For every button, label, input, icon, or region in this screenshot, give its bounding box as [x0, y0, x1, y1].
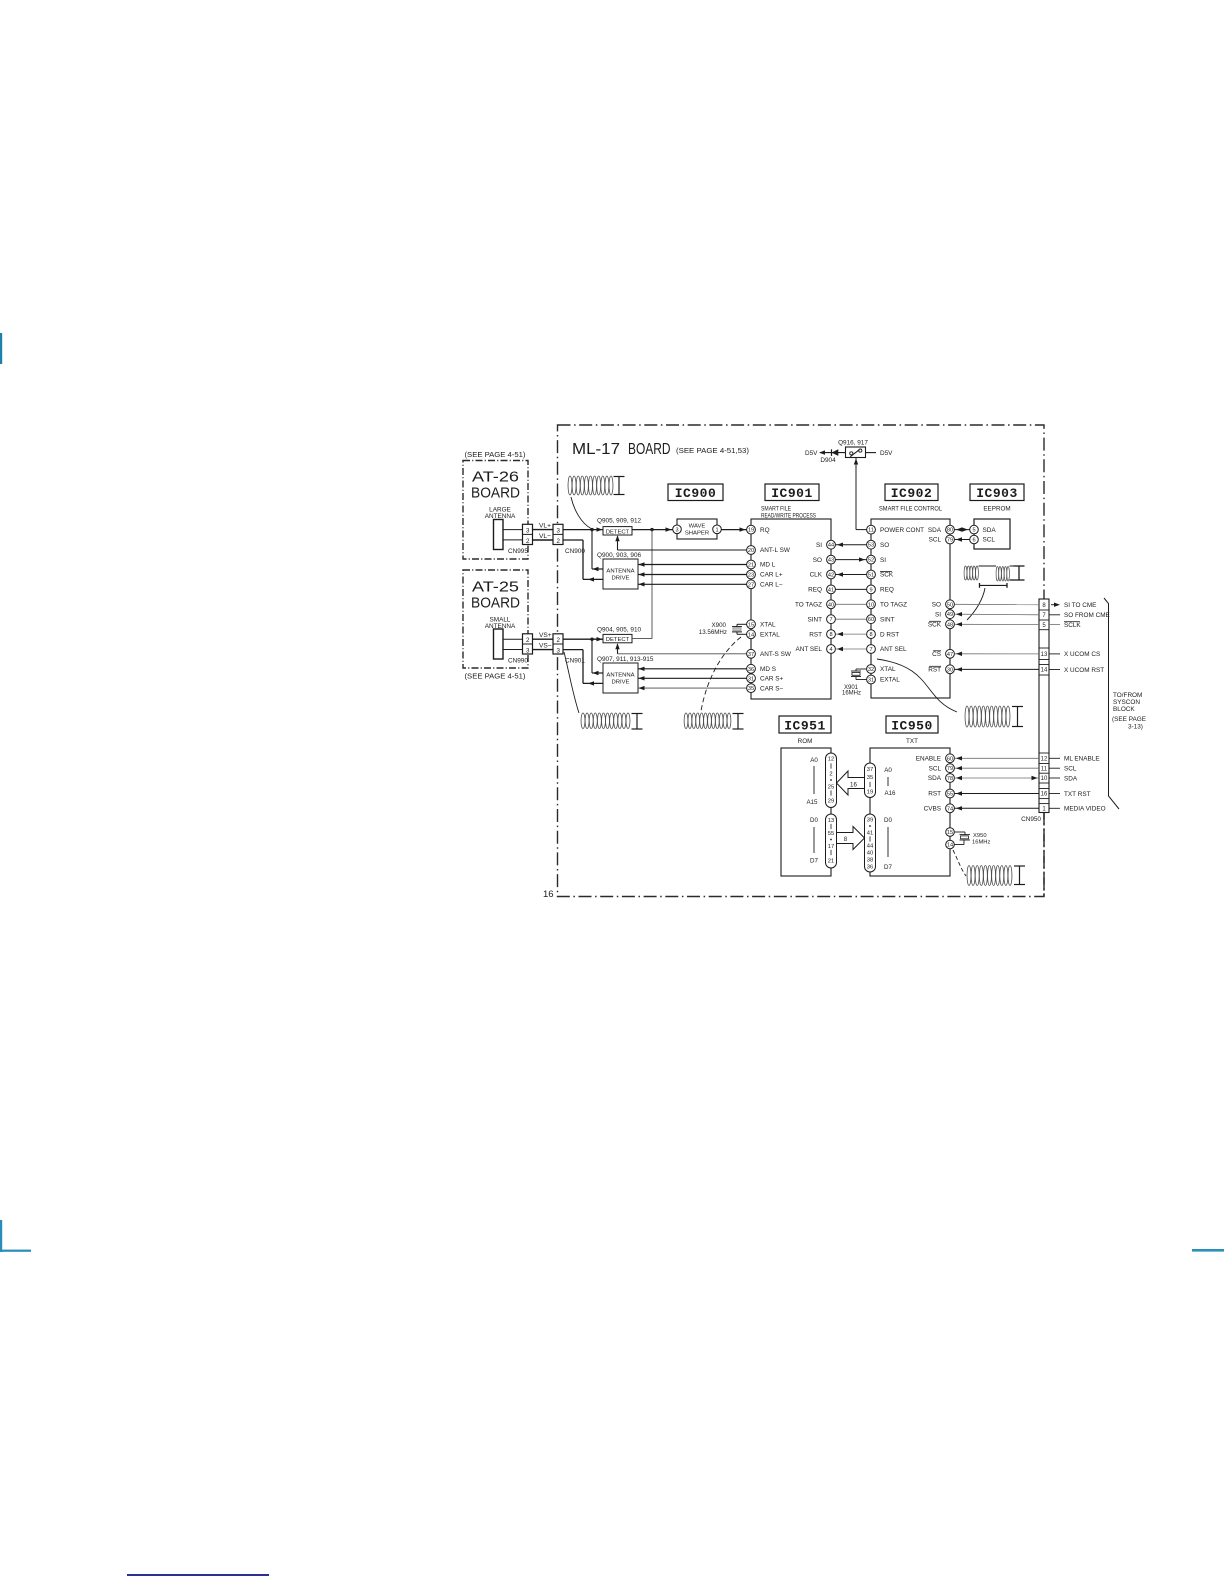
svg-text:X UCOM CS: X UCOM CS: [1064, 651, 1100, 658]
svg-text:D0: D0: [884, 817, 892, 824]
IC902 pin 31 EXTAL: [867, 675, 876, 684]
svg-text:16MHz: 16MHz: [842, 691, 861, 697]
wire antenna drive2 out1: [591, 639, 593, 673]
svg-text:CAR S−: CAR S−: [760, 685, 784, 692]
svg-text:CN990: CN990: [508, 658, 528, 665]
wire VL+ CN995 to CN900: [533, 529, 554, 531]
IC901 pin 14 EXTAL: [747, 630, 756, 639]
svg-text:32: 32: [868, 667, 874, 673]
svg-text:35: 35: [748, 686, 754, 692]
IC902 pin 47 CS: [946, 649, 955, 658]
IC900 label box: [668, 484, 723, 501]
svg-text:37: 37: [748, 652, 754, 658]
crystal X900 13.56MHz: [737, 623, 747, 625]
svg-text:ENABLE: ENABLE: [916, 756, 941, 763]
svg-text:16: 16: [1041, 792, 1048, 798]
svg-text:SCL: SCL: [929, 537, 942, 544]
svg-text:3-13): 3-13): [1128, 724, 1143, 731]
IC901 pin 8 RST: [827, 630, 836, 639]
svg-text:8: 8: [829, 632, 832, 638]
wire TO TAGZ 40 to 10: [836, 603, 867, 605]
svg-text:48: 48: [947, 622, 953, 628]
svg-text:3: 3: [675, 527, 678, 533]
svg-text:44: 44: [867, 844, 874, 850]
svg-text:7: 7: [869, 647, 872, 653]
svg-text:XTAL: XTAL: [760, 622, 776, 629]
svg-text:CAR L−: CAR L−: [760, 582, 783, 589]
svg-text:SHAPER: SHAPER: [685, 530, 709, 536]
svg-text:SINT: SINT: [880, 616, 895, 623]
svg-text:TXT: TXT: [906, 738, 918, 745]
svg-text:9: 9: [869, 587, 872, 593]
IC950 pin 79 SCL: [946, 764, 955, 773]
IC950 pin 78 SDA: [946, 774, 955, 783]
IC901 pin 44 SI: [827, 540, 836, 549]
wire wave shaper to IC901 RQ: [721, 529, 746, 531]
IC951 address pins 12-29: [826, 753, 837, 808]
IC901 pin 40 TO TAGZ: [827, 600, 836, 609]
antenna drive block 2: [603, 663, 638, 693]
svg-text:12: 12: [828, 757, 834, 763]
svg-text:36: 36: [867, 865, 873, 871]
AT-26 board dash-dot border: [463, 461, 528, 560]
net SO FROM CME: [1049, 614, 1060, 616]
svg-text:MD S: MD S: [760, 666, 776, 673]
IC950 data pins 39-36: [865, 814, 876, 872]
large antenna element: [494, 520, 504, 550]
wire antenna drive1 out1: [591, 530, 593, 569]
wire ANT-L SW to DETECT1 bottom: [618, 549, 747, 551]
measure bracket under coil: [979, 583, 981, 588]
wire MD S into antenna drive2: [638, 668, 747, 670]
board border below connector: [1043, 813, 1045, 897]
svg-text:19: 19: [867, 790, 873, 796]
svg-text:X900: X900: [712, 622, 727, 629]
net D5V right: [866, 452, 877, 454]
wire SI 49 to pin 7 SO FROM CME: [955, 613, 1040, 616]
net SI TO CME: [1054, 603, 1060, 607]
svg-text:VL−: VL−: [539, 533, 551, 540]
svg-text:SDA: SDA: [928, 527, 942, 534]
wire SCK 51 to CLK 42: [836, 574, 867, 576]
svg-text:29: 29: [828, 799, 834, 805]
svg-text:30: 30: [947, 667, 953, 673]
svg-text:READ/WRITE PROCESS: READ/WRITE PROCESS: [761, 512, 816, 519]
net TXT RST: [1049, 793, 1060, 795]
svg-text:39: 39: [867, 818, 873, 824]
wire ANT SEL 7 to 4: [836, 648, 867, 650]
wire CN901 pin2 to DETECT2: [563, 638, 603, 640]
svg-text:ANTENNA: ANTENNA: [606, 569, 634, 575]
print registration mark navy bottom: [127, 1574, 269, 1576]
dashed leader pin14 to coil: [953, 850, 966, 876]
node wire down to DETECT2 output: [651, 530, 653, 639]
svg-text:D0: D0: [810, 817, 818, 824]
ferrite coil bottom-right with capacitor: [967, 866, 971, 886]
svg-text:WAVE: WAVE: [689, 524, 706, 530]
IC901 pin 21 MD L: [747, 560, 756, 569]
IC902 pin 48 SCK: [946, 620, 955, 629]
IC950 pin 60 ENABLE: [946, 754, 955, 763]
wire power cont to switch: [855, 458, 857, 530]
net X UCOM RST: [1049, 669, 1060, 671]
svg-text:CLK: CLK: [810, 572, 823, 579]
svg-text:41: 41: [867, 831, 873, 837]
svg-text:IC951: IC951: [784, 719, 826, 734]
ML-17 board dash-dot border: [558, 425, 1045, 897]
wire SO 43 to SI 52: [836, 559, 867, 561]
svg-text:13: 13: [828, 818, 834, 824]
ferrite coil right of connector top with capacitor: [965, 706, 969, 727]
wave shaper pin 3: [673, 525, 682, 534]
svg-text:37: 37: [867, 767, 873, 773]
svg-text:60: 60: [868, 617, 874, 623]
svg-text:Q900, 903, 906: Q900, 903, 906: [597, 552, 642, 559]
wire CAR L- into antenna drive1: [638, 583, 747, 585]
svg-text:40: 40: [867, 851, 873, 857]
IC903 pin 6 SCL: [970, 535, 979, 544]
svg-text:35: 35: [867, 775, 873, 781]
print registration mark cyan right: [1192, 1249, 1224, 1252]
syscon group bracket: [1104, 598, 1119, 809]
svg-text:10: 10: [868, 602, 874, 608]
svg-text:A0: A0: [810, 757, 818, 764]
IC901 pin 4 ANT SEL: [827, 645, 836, 654]
wire VS+ CN990 to CN901: [533, 638, 554, 640]
svg-text:IC900: IC900: [675, 486, 717, 501]
svg-text:BLOCK: BLOCK: [1113, 706, 1135, 713]
svg-text:14: 14: [947, 843, 953, 849]
svg-text:38: 38: [867, 858, 873, 864]
svg-text:14: 14: [748, 632, 754, 638]
IC902 pin 32 XTAL: [867, 665, 876, 674]
svg-text:15: 15: [748, 622, 754, 628]
IC901 pin 31 CAR S+: [747, 674, 756, 683]
svg-text:RST: RST: [928, 667, 941, 674]
net X UCOM CS: [1049, 653, 1060, 655]
svg-text:3: 3: [526, 528, 530, 535]
wire VS- CN990 to CN901: [533, 649, 554, 651]
wire CN901 pin3 to antenna drive2 out2: [563, 649, 583, 651]
IC902 label box: [885, 484, 938, 501]
svg-text:(SEE PAGE: (SEE PAGE: [1112, 716, 1146, 723]
IC902 pin 50 SO: [946, 600, 955, 609]
svg-text:21: 21: [828, 859, 834, 865]
IC901 pin 42 CLK: [827, 570, 836, 579]
svg-text:RST: RST: [928, 791, 941, 798]
net SCL: [1049, 767, 1060, 769]
svg-text:23: 23: [748, 573, 754, 579]
svg-text:SI: SI: [816, 542, 822, 549]
IC901 pin 41 REQ: [827, 585, 836, 594]
IC903 label box: [970, 484, 1024, 501]
svg-text:17: 17: [828, 844, 834, 850]
net SDA: [1049, 777, 1060, 779]
svg-text:ANT-S SW: ANT-S SW: [760, 651, 792, 658]
svg-text:31: 31: [748, 676, 754, 682]
IC950 pin 55 RST: [946, 789, 955, 798]
svg-text:1: 1: [715, 527, 718, 533]
svg-text:7: 7: [829, 617, 832, 623]
connector CN960 to syscon: [1039, 599, 1049, 813]
dashed leader from EXTAL to coil: [701, 637, 741, 711]
IC950 pin 74 CVBS: [946, 804, 955, 813]
svg-text:SCK: SCK: [928, 622, 942, 629]
svg-text:Q907, 911, 913-915: Q907, 911, 913-915: [597, 656, 654, 663]
svg-text:SCL: SCL: [983, 537, 996, 544]
svg-text:19: 19: [748, 528, 754, 534]
svg-text:SCK: SCK: [880, 572, 894, 579]
leader from CN901 to coil: [564, 652, 579, 713]
svg-text:5: 5: [972, 528, 975, 534]
svg-text:CAR S+: CAR S+: [760, 676, 784, 683]
wire CAR S- into antenna drive2: [638, 687, 747, 689]
wire SDA 80 to 5: [955, 529, 970, 531]
ferrite coil L top-left with capacitor: [568, 476, 572, 495]
IC903 pin 5 SDA: [970, 525, 979, 534]
crystal X950 16MHz: [955, 831, 966, 833]
svg-text:SO: SO: [813, 557, 822, 564]
wave shaper pin 1: [713, 525, 722, 534]
IC902 pin 9 REQ: [867, 585, 876, 594]
wire RST 30 to pin 14 X UCOM RST: [955, 668, 1040, 670]
IC902 pin 52 SI: [867, 555, 876, 564]
svg-text:(SEE PAGE 4-51,53): (SEE PAGE 4-51,53): [676, 446, 749, 455]
wire VL- CN995 to CN900: [533, 539, 554, 541]
IC903 body: [974, 519, 1010, 549]
svg-text:3: 3: [557, 647, 561, 654]
wire SINT 7 to 60: [836, 618, 867, 620]
svg-text:AT-25: AT-25: [472, 580, 519, 596]
svg-text:CN901: CN901: [565, 658, 585, 665]
wire REQ 41 to REQ 9: [836, 588, 867, 590]
double ferrite coil near IC903: [964, 566, 967, 580]
svg-text:Q916, 917: Q916, 917: [838, 440, 868, 447]
svg-text:RQ: RQ: [760, 527, 770, 534]
svg-text:2: 2: [526, 538, 530, 545]
svg-text:74: 74: [947, 806, 953, 812]
svg-text:SO: SO: [880, 542, 889, 549]
svg-text:ANT SEL: ANT SEL: [880, 646, 907, 653]
IC902 body: [871, 519, 950, 698]
svg-text:43: 43: [828, 558, 834, 564]
svg-text:DRIVE: DRIVE: [611, 680, 629, 686]
svg-text:TXT RST: TXT RST: [1064, 791, 1091, 798]
svg-text:79: 79: [947, 766, 953, 772]
svg-text:SDA: SDA: [983, 527, 997, 534]
svg-text:13.56MHz: 13.56MHz: [699, 629, 727, 636]
svg-text:SI: SI: [880, 557, 886, 564]
svg-text:25: 25: [828, 785, 834, 791]
IC901 label box: [765, 484, 819, 501]
svg-text:16: 16: [543, 889, 554, 900]
svg-text:42: 42: [828, 573, 834, 579]
svg-text:AT-26: AT-26: [472, 470, 519, 486]
svg-text:20: 20: [748, 548, 754, 554]
svg-text:D RST: D RST: [880, 631, 899, 638]
svg-text:CS: CS: [932, 651, 941, 658]
svg-text:53: 53: [868, 543, 874, 549]
IC901 pin 19 RQ: [747, 525, 756, 534]
svg-text:6: 6: [972, 538, 975, 544]
wire DETECT2 output to node: [632, 638, 652, 640]
IC902 pin 7 ANT SEL: [867, 645, 876, 654]
svg-text:SI TO CME: SI TO CME: [1064, 602, 1096, 609]
svg-text:ANT-L SW: ANT-L SW: [760, 547, 791, 554]
svg-text:CAR L+: CAR L+: [760, 572, 783, 579]
net ML ENABLE: [1049, 757, 1060, 759]
IC951 body: [781, 748, 831, 876]
svg-text:41: 41: [828, 587, 834, 593]
svg-text:VS+: VS+: [539, 632, 552, 639]
IC950 address pins 37-19: [865, 763, 876, 798]
IC902 pin 8 D RST: [867, 630, 876, 639]
svg-text:27: 27: [748, 582, 754, 588]
detect block 1: [603, 527, 632, 535]
svg-text:50: 50: [947, 602, 953, 608]
IC950 body: [870, 748, 950, 876]
ferrite coil bottom-left with capacitor: [581, 713, 585, 729]
svg-text:10: 10: [1041, 776, 1048, 782]
svg-text:SCL: SCL: [1064, 766, 1077, 773]
svg-text:ANT SEL: ANT SEL: [795, 646, 822, 653]
IC902 pin 10 TO TAGZ: [867, 600, 876, 609]
svg-text:(SEE PAGE 4-51): (SEE PAGE 4-51): [465, 450, 526, 459]
svg-text:SCLK: SCLK: [1064, 622, 1081, 629]
IC901 pin 36 MD S: [747, 664, 756, 673]
ferrite coil bottom-center with capacitor: [684, 713, 688, 729]
svg-text:ROM: ROM: [798, 738, 813, 745]
wire SCL to pin 11: [955, 767, 1040, 769]
svg-text:A16: A16: [884, 790, 896, 797]
svg-text:SDA: SDA: [928, 775, 942, 782]
wire SDA to pin 10: [955, 777, 1040, 779]
IC901 pin 37 ANT-S SW: [747, 649, 756, 658]
svg-text:MD L: MD L: [760, 562, 776, 569]
wire CAR S+ into antenna drive2: [638, 677, 747, 679]
svg-text:D5V: D5V: [805, 450, 818, 457]
svg-text:3: 3: [557, 528, 561, 535]
wire SO 53 to SI 44: [836, 544, 867, 546]
svg-text:BOARD: BOARD: [628, 441, 671, 458]
svg-text:RST: RST: [809, 631, 822, 638]
svg-text:55: 55: [947, 792, 953, 798]
svg-text:15: 15: [947, 830, 953, 836]
svg-text:IC950: IC950: [891, 719, 933, 734]
svg-text:3: 3: [526, 647, 530, 654]
svg-text:BOARD: BOARD: [471, 596, 520, 612]
svg-text:REQ: REQ: [880, 587, 894, 594]
wire RST to pin 16: [955, 793, 1040, 795]
wire SO 50 to pin 8 SI TO CME: [955, 603, 1040, 605]
svg-text:D7: D7: [884, 864, 892, 871]
connector CN990: [523, 634, 533, 654]
IC902 pin 80 SDA: [946, 525, 955, 534]
IC901 pin 43 SO: [827, 555, 836, 564]
svg-text:60: 60: [947, 756, 953, 762]
svg-text:REQ: REQ: [808, 587, 822, 594]
svg-text:2: 2: [526, 637, 530, 644]
svg-text:Q904, 905, 910: Q904, 905, 910: [597, 627, 642, 634]
svg-text:51: 51: [868, 573, 874, 579]
svg-text:8: 8: [844, 836, 848, 843]
svg-text:21: 21: [748, 563, 754, 569]
svg-text:X950: X950: [973, 833, 987, 839]
connector CN995: [523, 524, 533, 544]
svg-text:ML ENABLE: ML ENABLE: [1064, 756, 1100, 763]
svg-text:EXTAL: EXTAL: [880, 677, 900, 684]
svg-text:ML-17: ML-17: [572, 441, 620, 458]
svg-text:11: 11: [868, 528, 874, 534]
IC901 pin 7 SINT: [827, 615, 836, 624]
AT-25 board dash-dot border: [463, 570, 528, 668]
svg-text:A15: A15: [806, 799, 818, 806]
svg-text:55: 55: [828, 831, 834, 837]
small antenna element: [494, 629, 504, 659]
wire CAR L+ into antenna drive1: [638, 574, 747, 576]
IC901 body: [751, 519, 831, 699]
svg-text:XTAL: XTAL: [880, 666, 896, 673]
print registration mark cyan top-left: [0, 333, 2, 364]
diode D904: [820, 452, 846, 454]
svg-text:D7: D7: [810, 858, 818, 865]
svg-text:BOARD: BOARD: [471, 486, 520, 502]
svg-text:ANTENNA: ANTENNA: [606, 673, 634, 679]
print registration mark cyan corner bottom-left: [0, 1220, 2, 1252]
IC902 pin 49 SI: [946, 610, 955, 619]
svg-text:IC901: IC901: [771, 486, 813, 501]
leader from bracket to serial wires: [967, 588, 985, 620]
net D5V left: [819, 450, 825, 454]
svg-text:SDA: SDA: [1064, 775, 1078, 782]
svg-text:EXTAL: EXTAL: [760, 632, 780, 639]
svg-text:8: 8: [869, 632, 872, 638]
IC950 label box: [886, 716, 938, 733]
svg-text:VS−: VS−: [539, 642, 552, 649]
address bus block arrow 16: [837, 771, 865, 795]
svg-text:SCL: SCL: [929, 765, 942, 772]
IC951 data pins 13-21: [826, 814, 837, 868]
IC902 pin 79 SCL: [946, 535, 955, 544]
wire DETECT1 output to wave shaper: [632, 529, 673, 531]
svg-text:CVBS: CVBS: [924, 806, 941, 813]
data bus block arrow 8: [837, 827, 865, 850]
svg-text:POWER CONT: POWER CONT: [880, 527, 924, 534]
svg-text:16MHz: 16MHz: [972, 839, 990, 845]
svg-text:SMART FILE CONTROL: SMART FILE CONTROL: [879, 506, 942, 513]
svg-text:47: 47: [947, 652, 953, 658]
wire MD L into antenna drive1: [638, 564, 747, 566]
IC901 pin 27 CAR L−: [747, 580, 756, 589]
svg-text:CN995: CN995: [508, 548, 528, 555]
svg-text:MEDIA VIDEO: MEDIA VIDEO: [1064, 806, 1106, 813]
svg-text:VL+: VL+: [539, 522, 551, 529]
svg-text:D5V: D5V: [880, 450, 893, 457]
svg-text:IC903: IC903: [976, 486, 1018, 501]
svg-text:49: 49: [947, 612, 953, 618]
svg-text:A0: A0: [884, 767, 892, 774]
svg-text:SO FROM CME: SO FROM CME: [1064, 612, 1110, 619]
net MEDIA VIDEO: [1049, 807, 1060, 809]
IC901 pin 35 CAR S−: [747, 684, 756, 693]
svg-text:TO/FROM: TO/FROM: [1113, 692, 1142, 699]
wire SCK 48 to pin 5 SCLK: [955, 623, 1040, 625]
antenna drive block 1: [603, 559, 638, 589]
svg-text:80: 80: [947, 528, 953, 534]
svg-text:31: 31: [868, 678, 874, 684]
wire ENABLE to pin 12: [955, 757, 1040, 759]
svg-text:40: 40: [828, 602, 834, 608]
